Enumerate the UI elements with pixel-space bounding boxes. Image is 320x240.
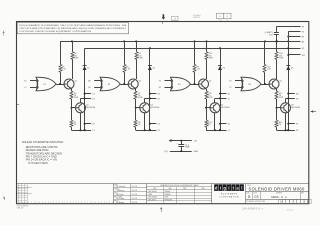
svg-text:V2: V2 xyxy=(158,130,160,132)
gate E2 (NOR) xyxy=(100,77,120,91)
svg-text:i: i xyxy=(220,186,221,191)
capacitor C1-7 bypass xyxy=(169,139,198,151)
transistor & diode conversion chart xyxy=(147,184,212,204)
node pin S2 xyxy=(84,123,95,126)
transistor Q5 xyxy=(199,79,212,89)
svg-text:IC IS DEC7402N: IC IS DEC7402N xyxy=(28,161,48,165)
svg-text:M060 - 0 - 1: M060 - 0 - 1 xyxy=(271,195,287,199)
wire gate inputs cell2 xyxy=(88,80,102,89)
svg-text:CODE: CODE xyxy=(253,192,257,194)
svg-text:D2: D2 xyxy=(153,68,155,70)
svg-text:T2: T2 xyxy=(92,130,94,132)
svg-text:L2: L2 xyxy=(228,130,230,132)
svg-text:2/8i M060-0-1 =: 2/8i M060-0-1 = xyxy=(241,206,263,210)
wire to Q2 base xyxy=(71,99,76,109)
transistor Q3 xyxy=(128,79,141,89)
node bus to border A2 xyxy=(287,40,305,43)
transistor Q2 DEC3009S xyxy=(76,103,96,113)
resistor R13 xyxy=(263,65,272,73)
drawing border frame xyxy=(17,22,309,204)
transistor Q6 DEC3009S xyxy=(210,103,230,113)
svg-text:1/2W: 1/2W xyxy=(138,58,142,60)
wire +V bus xyxy=(60,41,301,43)
resistor R7 xyxy=(134,91,143,99)
wire pin B1 xyxy=(288,31,305,33)
svg-text:l: l xyxy=(241,186,242,191)
diode D2 D664 xyxy=(148,66,155,70)
svg-text:DEC3009S: DEC3009S xyxy=(291,107,301,109)
svg-text:d: d xyxy=(215,186,218,191)
svg-text:S2: S2 xyxy=(92,124,94,126)
wire Q4 emitter xyxy=(136,113,157,132)
transistor Q1 xyxy=(64,79,77,89)
svg-text:DEC3009: DEC3009 xyxy=(148,199,155,201)
svg-text:1/2W: 1/2W xyxy=(74,97,78,99)
svg-text:R2: R2 xyxy=(159,87,161,89)
svg-text:1/2W: 1/2W xyxy=(74,58,78,60)
right border arrow xyxy=(310,110,316,113)
svg-text:MPS3638: MPS3638 xyxy=(164,199,171,201)
wire +5V A1 feed xyxy=(276,27,305,32)
printed circuit rev row xyxy=(246,199,311,204)
svg-text:2-4-70: 2-4-70 xyxy=(132,190,137,192)
svg-text:A.Kent: A.Kent xyxy=(116,193,124,196)
diode D3 D664 xyxy=(218,66,225,70)
capacitor C8 6.8MF xyxy=(264,31,279,42)
svg-text:DEC3009S: DEC3009S xyxy=(86,107,96,109)
wire Q6 collector xyxy=(214,98,216,102)
node clamp tap cell2 xyxy=(149,47,151,49)
copyright note box xyxy=(17,23,128,34)
node pin C2 xyxy=(84,93,95,96)
border zone tick left xyxy=(17,104,20,106)
svg-text:T2: T2 xyxy=(229,87,231,89)
title block top line xyxy=(17,183,309,185)
svg-text:COPYRIGHT 1969 BY DIGITAL EQUI: COPYRIGHT 1969 BY DIGITAL EQUIPMENT CORP… xyxy=(19,30,92,33)
node pin D2 xyxy=(81,97,95,100)
margin scribble f xyxy=(3,31,5,36)
svg-text:GND: GND xyxy=(194,151,199,153)
svg-text:D3: D3 xyxy=(223,68,225,70)
svg-text:O: O xyxy=(219,16,221,18)
title text xyxy=(247,185,305,191)
svg-text:2-5-70: 2-5-70 xyxy=(132,194,137,196)
svg-text:N2: N2 xyxy=(296,98,298,100)
microfilm arrow marker xyxy=(162,14,165,20)
notes block xyxy=(22,140,64,165)
node pin U2 xyxy=(149,123,160,126)
svg-text:DRB 102: DRB 102 xyxy=(17,208,24,210)
node pin R2 xyxy=(287,129,298,132)
svg-text:M2: M2 xyxy=(88,81,91,83)
wire gate inputs cell1 xyxy=(24,80,38,89)
wire pin D1 xyxy=(287,54,305,57)
svg-text:DEC3009S: DEC3009S xyxy=(221,107,231,109)
node pin H2 xyxy=(219,93,230,96)
wire to Q4 base xyxy=(135,99,140,109)
wire right rail top xyxy=(288,32,290,49)
revision mini table xyxy=(17,184,32,204)
svg-text:Q5: Q5 xyxy=(209,80,211,82)
svg-text:E02: E02 xyxy=(269,34,272,36)
wire clamp rail cell4 xyxy=(288,48,290,130)
svg-text:2-4-70: 2-4-70 xyxy=(132,186,137,188)
wire base rail cell4 xyxy=(264,41,266,84)
svg-text:Q1: Q1 xyxy=(74,80,76,82)
transistor Q4 DEC3009S xyxy=(140,103,160,113)
wire clamp rail cell3 xyxy=(220,48,222,130)
resistor R4 xyxy=(70,108,77,131)
wire clamp bus xyxy=(85,48,301,50)
svg-text:R2: R2 xyxy=(296,130,298,132)
svg-text:DEC FORM NO: DEC FORM NO xyxy=(17,205,29,207)
transistor Q7 xyxy=(269,79,282,89)
svg-text:SIZE: SIZE xyxy=(246,192,249,194)
wire base rail cell1 xyxy=(60,41,62,84)
resistor R9 xyxy=(193,65,201,73)
pencil arrow xyxy=(160,207,162,212)
wire to Q6 base xyxy=(205,99,210,109)
svg-text:F2: F2 xyxy=(158,98,160,100)
wire Q3 emitter chain xyxy=(135,87,136,91)
wire base rail cell2 xyxy=(124,41,126,84)
svg-text:1/2W: 1/2W xyxy=(208,97,212,99)
svg-text:K2: K2 xyxy=(228,124,230,126)
svg-text:M2: M2 xyxy=(296,94,299,96)
wire pin B2 xyxy=(287,36,305,39)
svg-text:1/2W: 1/2W xyxy=(209,58,213,60)
svg-text:7 p s: 7 p s xyxy=(287,208,294,212)
svg-text:D664: D664 xyxy=(148,194,152,196)
margin blob xyxy=(4,196,5,200)
svg-text:L2: L2 xyxy=(25,87,27,89)
svg-text:THIS SCHEMATIC IS FURNISHED ON: THIS SCHEMATIC IS FURNISHED ONLY FOR TES… xyxy=(19,24,128,27)
node clamp tap cell3 xyxy=(219,47,221,49)
node clamp tap cell4 xyxy=(287,47,289,49)
wire gate output to Q7 base xyxy=(261,83,269,85)
ruler ticks bottom strip xyxy=(29,202,113,204)
wire Q1 emitter chain xyxy=(70,87,71,91)
svg-text:D2: D2 xyxy=(92,98,94,100)
svg-text:R.Vecchi: R.Vecchi xyxy=(117,186,126,188)
wire clamp rail cell2 xyxy=(149,48,151,130)
wire base rail cell3 xyxy=(194,41,196,84)
svg-text:J.Mazej: J.Mazej xyxy=(117,190,125,192)
film grade boxes xyxy=(217,13,231,21)
node pin F2 xyxy=(145,97,160,100)
svg-text:D1: D1 xyxy=(87,68,89,70)
wire Q4 collector xyxy=(144,98,146,102)
svg-text:PRINTED CIRCUIT REV.: PRINTED CIRCUIT REV. xyxy=(247,201,267,203)
wire collector rail cell1 xyxy=(72,41,74,79)
svg-text:1N3606: 1N3606 xyxy=(164,194,170,196)
svg-text:P2: P2 xyxy=(296,124,298,126)
diode D1 D664 xyxy=(83,66,90,70)
gate E1 (NOR) xyxy=(36,77,56,91)
wire Q2 emitter xyxy=(72,113,92,132)
resistor R15 xyxy=(275,91,283,99)
wire Q6 emitter xyxy=(206,113,227,132)
ground wire xyxy=(164,150,198,153)
film frame label box xyxy=(172,16,178,20)
film index text xyxy=(193,15,202,19)
wire gate inputs cell4 xyxy=(229,80,243,89)
svg-text:H.Stone: H.Stone xyxy=(117,201,126,204)
DEC digital logo xyxy=(214,184,245,204)
gate E4 (NOR) xyxy=(241,77,261,91)
node pin M2 xyxy=(287,93,298,96)
svg-text:2N3009: 2N3009 xyxy=(164,191,170,193)
node pin L2 xyxy=(219,129,230,132)
wire clamp rail cell1 xyxy=(84,48,86,130)
diode D4 D664 xyxy=(286,66,293,70)
svg-text:1/2W: 1/2W xyxy=(138,97,142,99)
svg-text:S2: S2 xyxy=(229,81,231,83)
svg-text:C2: C2 xyxy=(92,94,94,96)
wire gate output to Q5 base xyxy=(191,83,199,85)
wire Q5 emitter chain xyxy=(205,87,207,91)
svg-text:2-5-70: 2-5-70 xyxy=(132,198,137,200)
svg-text:K2: K2 xyxy=(24,81,26,83)
svg-text:1/2W: 1/2W xyxy=(279,58,283,60)
wire gate output to Q3 base xyxy=(120,83,128,85)
svg-text:8OMYH: 8OMYH xyxy=(193,17,200,19)
svg-text:W.Long: W.Long xyxy=(117,198,125,200)
svg-text:DEC7402N: DEC7402N xyxy=(148,197,157,199)
node pin J2 xyxy=(215,97,230,100)
svg-text:i: i xyxy=(228,186,229,191)
svg-text:+: + xyxy=(278,31,279,33)
svg-text:C O R P O R A T I O N: C O R P O R A T I O N xyxy=(219,195,239,198)
wire gate output to Q1 base xyxy=(56,83,64,85)
resistor R8 xyxy=(134,108,141,131)
svg-text:Q3: Q3 xyxy=(139,80,141,82)
svg-text:2-6-70: 2-6-70 xyxy=(132,202,137,204)
svg-text:UNLESS OTHERWISE INDICATED:: UNLESS OTHERWISE INDICATED: xyxy=(22,140,64,144)
svg-text:+: + xyxy=(177,143,178,145)
wire Q7 emitter chain xyxy=(275,87,276,91)
signature block xyxy=(114,184,147,205)
svg-text:U2: U2 xyxy=(158,124,160,126)
resistor R10 xyxy=(205,52,213,60)
resistor R11 xyxy=(205,91,213,99)
svg-text:7402: 7402 xyxy=(164,197,168,199)
resistor R3 xyxy=(70,91,78,99)
svg-text:(2,2): (2,2) xyxy=(164,151,168,153)
resistor R16 xyxy=(275,108,282,131)
resistor R14 xyxy=(275,52,284,60)
gate E3 (NOR) xyxy=(171,77,191,91)
svg-text:CS: CS xyxy=(254,195,258,199)
svg-text:H2: H2 xyxy=(228,94,230,96)
svg-text:CIRCUITS ARE PROPRIETARY IN NA: CIRCUITS ARE PROPRIETARY IN NATURE AND S… xyxy=(19,27,128,30)
node pin E2 xyxy=(149,93,160,96)
node pin K2 xyxy=(219,123,230,126)
svg-text:1/2W: 1/2W xyxy=(279,97,283,99)
node cell2 +V taps xyxy=(123,40,137,42)
resistor R2 xyxy=(71,52,79,60)
resistor R1 xyxy=(59,65,67,73)
svg-text:DEC3009S: DEC3009S xyxy=(148,191,157,193)
node cell1 +V taps xyxy=(71,40,73,42)
size/code/number row xyxy=(246,192,309,200)
node pin T2 xyxy=(84,129,95,132)
node pin V2 xyxy=(149,129,160,132)
svg-text:Q7: Q7 xyxy=(279,80,281,82)
node pin N2 xyxy=(286,97,299,100)
resistor R12 xyxy=(205,108,212,131)
pencil note xyxy=(241,206,294,212)
node cell4 +V taps xyxy=(264,40,278,42)
svg-text:P2: P2 xyxy=(159,81,161,83)
node cell3 +V taps xyxy=(194,40,208,42)
wire collector rail cell4 xyxy=(276,41,278,79)
svg-text:D4: D4 xyxy=(291,68,293,70)
wire collector rail cell3 xyxy=(206,41,208,79)
resistor R6 xyxy=(135,52,143,60)
svg-text:N2: N2 xyxy=(88,87,90,89)
wire collector rail cell2 xyxy=(136,41,138,79)
form number xyxy=(17,205,29,209)
svg-text:SOLENOID DRIVER M060: SOLENOID DRIVER M060 xyxy=(249,187,306,192)
wire Q8 emitter xyxy=(277,113,295,132)
wire to Q8 base xyxy=(276,99,281,109)
svg-text:E2: E2 xyxy=(158,94,160,96)
wire Q2 collector xyxy=(80,98,82,102)
wire gate inputs cell3 xyxy=(159,80,173,89)
resistor R5 xyxy=(123,65,131,73)
svg-text:g: g xyxy=(223,186,226,191)
svg-text:J2: J2 xyxy=(228,98,230,100)
node pin C1 clamp bus xyxy=(287,47,305,50)
node clamp tap cell1 xyxy=(0,0,1,1)
wire Q8 collector xyxy=(285,98,287,102)
svg-text:DEC3009S: DEC3009S xyxy=(150,107,160,109)
border zone tick top xyxy=(162,22,164,24)
svg-text:E Q U I P M E N T: E Q U I P M E N T xyxy=(221,194,238,196)
node pin P2 xyxy=(287,123,298,126)
transistor Q8 DEC3009S xyxy=(281,103,301,113)
